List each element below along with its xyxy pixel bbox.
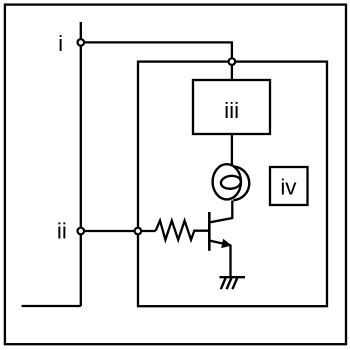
svg-text:iv: iv [280, 175, 297, 200]
svg-text:i: i [58, 31, 63, 56]
svg-text:ii: ii [57, 219, 67, 244]
svg-text:iii: iii [224, 98, 239, 123]
